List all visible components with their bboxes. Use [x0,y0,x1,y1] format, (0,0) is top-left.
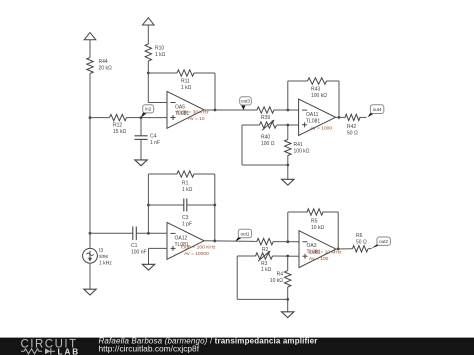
wire feedback up [287,81,289,110]
wire R1 left lead [148,173,177,175]
footer bar [0,338,474,355]
junction OA11 - node [286,109,289,112]
svg-text:http://circuitlab.com/cxjcp8f: http://circuitlab.com/cxjcp8f [99,344,200,354]
wire + to ground [148,248,150,264]
wire to ground [287,299,289,311]
svg-text:out1: out1 [240,231,249,236]
svg-text:1 nF: 1 nF [150,140,160,146]
wire OA12 output to R2 [204,240,257,243]
node flag out4 [368,105,384,118]
svg-text:C3: C3 [182,215,189,221]
svg-text:10 kΩ: 10 kΩ [270,278,283,284]
svg-text:1 kHz: 1 kHz [99,260,112,266]
svg-text:R40: R40 [261,135,270,141]
resistor R5 [307,209,323,215]
svg-text:100 nF: 100 nF [131,249,147,255]
resistor R42 [345,114,360,120]
wire R1 right lead [194,173,215,175]
node flag out3 [240,97,252,110]
svg-text:Av = 100: Av = 100 [309,256,329,262]
svg-text:100 kΩ: 100 kΩ [311,93,327,99]
wire output to R6 [336,248,353,250]
wire OA5 output to R39 [204,109,257,111]
resistor R2 [257,238,273,244]
svg-text:50 Ω: 50 Ω [356,239,367,245]
resistor R43 [308,78,327,84]
wire supply to R10 [147,25,149,44]
wire R43 right lead [327,80,340,82]
svg-text:out2: out2 [379,239,388,244]
svg-text:20 kΩ: 20 kΩ [99,65,112,71]
junction OA3 + node [286,255,289,258]
junction OA3 - node [286,240,289,243]
potentiometer R40 [260,122,277,128]
wire output to R42 [336,116,346,118]
svg-text:OA5: OA5 [175,105,185,111]
op-amp OA12 [167,222,204,259]
wire feedback up [287,212,289,242]
svg-text:15 kΩ: 15 kΩ [113,129,126,135]
wire left rail R44 to C1 node [89,74,91,234]
wire R6 right lead [368,248,372,250]
svg-text:R39: R39 [261,115,270,121]
junction C3 right tee [213,204,216,207]
wire OA12 + lead [149,247,168,249]
op-amp OA5 [167,91,204,128]
svg-text:Av = 10: Av = 10 [188,116,205,122]
wire C4 to ground [140,139,142,160]
op-amp OA11 [299,99,336,135]
wire R2 to OA3 - input [273,241,299,243]
junction R41 bottom / ground [286,164,289,167]
svg-text:R5: R5 [311,219,318,225]
power supply arrow (node above R44) [84,33,96,40]
svg-text:LAB: LAB [58,347,81,355]
wire R3 left lead [237,255,255,257]
svg-text:OA11: OA11 [306,112,319,118]
ground below R41 [282,179,294,185]
ground below I3 [84,289,96,295]
wire R42 right lead [360,116,367,118]
wire R11 left lead [148,72,177,74]
wire C1 to OA12 - input [136,232,167,234]
svg-text:R6: R6 [356,233,363,239]
svg-text:C1: C1 [131,243,138,249]
svg-text:R43: R43 [311,87,320,93]
node flag out1 [235,229,252,241]
current source I3 [83,248,98,263]
svg-text:1 kΩ: 1 kΩ [182,187,193,193]
svg-text:R41: R41 [294,142,303,148]
capacitor C3 [184,198,187,211]
wire C3 right lead [187,204,215,206]
resistor R6 [352,246,368,252]
wire R41 top lead [287,125,289,140]
wire feedback down to OA5 output [214,73,216,110]
wire R5 left lead [288,211,308,213]
wire R40 left lead [242,124,260,126]
wire R4 top lead [287,256,289,271]
ground at OA12 + [142,264,154,270]
svg-text:10 kΩ: 10 kΩ [311,225,324,231]
wire C4 top lead [140,118,142,136]
junction node in2 / C4 [140,116,143,119]
svg-text:out4: out4 [373,107,382,112]
resistor R41 [285,140,291,156]
wire to OA5 - input [148,102,167,104]
svg-text:1 kΩ: 1 kΩ [261,267,272,273]
wire R12 to OA5 + input [127,117,168,119]
svg-text:I3: I3 [99,248,103,254]
wire R5 right lead [323,211,339,213]
wire R41 bottom lead [287,156,289,166]
wire supply to R44 [89,40,91,58]
capacitor C4 [135,136,148,140]
ground below C4 [135,160,147,166]
wire feedback left vertical [147,174,149,233]
wire down to OA5 - level [147,73,149,103]
wire R11 right lead [194,72,215,74]
junction OA12 output / feedback [213,240,216,243]
junction R4 bottom / ground [286,298,289,301]
svg-text:R3: R3 [261,261,268,267]
svg-text:f3dB = 10 MHz: f3dB = 10 MHz [309,250,342,256]
junction rail / C1 / I3 [89,232,92,235]
junction OA11 + node [286,124,289,127]
wire R3 to OA3 + input [273,255,300,257]
svg-text:OA3: OA3 [307,243,317,249]
resistor R44 [87,58,93,74]
junction feedback / output [214,109,217,112]
svg-text:R44: R44 [99,59,108,65]
op-amp OA3 [299,231,336,268]
svg-text:out3: out3 [241,99,250,104]
svg-text:1 kΩ: 1 kΩ [181,85,192,91]
ground below R4 [282,312,294,318]
svg-text:TL081: TL081 [306,118,320,124]
svg-text:R4: R4 [277,272,284,278]
wire bottom return [237,298,288,300]
node flag in2 [141,105,154,118]
svg-text:R11: R11 [181,79,190,85]
wire I3 to ground [89,263,91,289]
wire feedback right vertical [214,174,216,241]
junction R10 / R11 / OA5 - branch [147,72,150,75]
svg-text:R42: R42 [347,124,356,130]
svg-text:f3dB = 100 KHz: f3dB = 100 KHz [181,245,216,251]
wire left vertical to R3 [236,256,238,299]
wire R40 to OA11 + input [277,124,299,126]
svg-text:100 Ω: 100 Ω [261,141,275,147]
svg-text:R1: R1 [182,181,189,187]
svg-text:50 Ω: 50 Ω [347,130,358,136]
junction left rail / R12 [89,116,92,119]
resistor R4 [285,271,291,287]
wire R43 left lead [288,80,308,82]
wire feedback down to OA3 output [337,212,339,249]
svg-text:1 pF: 1 pF [182,221,192,227]
junction OA11 output [338,116,341,119]
capacitor C1 [133,227,137,241]
svg-text:sine: sine [99,254,108,260]
wire R39 to OA11 - input [274,109,299,111]
svg-text:100 kΩ: 100 kΩ [294,148,310,154]
resistor R1 [177,171,194,177]
svg-text:Av = 1000: Av = 1000 [310,126,332,132]
wire C1 left lead [90,232,133,234]
junction C3 left tee [147,204,150,207]
wire to ground [287,165,289,179]
wire R12 left lead [90,117,110,119]
resistor R39 [257,107,274,113]
svg-text:R12: R12 [113,123,122,129]
resistor R12 [110,114,127,120]
wire C3 left lead [148,204,183,206]
svg-text:Av = 10000: Av = 10000 [184,251,209,257]
resistor R10 [145,44,151,61]
wire I3 top lead [89,233,91,248]
resistor R11 [177,70,194,76]
wire R10 bottom lead [147,61,149,73]
power supply arrow (node above R10) [143,18,155,25]
svg-text:C4: C4 [150,134,157,140]
node flag out2 [372,237,391,248]
potentiometer R3 [256,253,273,259]
junction OA12 - node [147,232,150,235]
svg-text:in2: in2 [145,107,152,112]
wire R4 bottom lead [287,287,289,299]
svg-text:R10: R10 [155,46,164,52]
svg-text:1 kΩ: 1 kΩ [155,52,166,58]
wire bottom return [242,164,288,166]
svg-text:OA12: OA12 [175,236,188,242]
junction OA3 output / feedback [337,248,340,251]
CircuitLab logo [21,338,81,355]
wire left vertical to R40 [241,125,243,165]
wire feedback down to OA11 output [338,81,340,117]
